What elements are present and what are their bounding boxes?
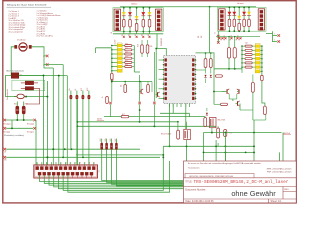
net AUX1A [204, 132, 292, 135]
relay contact S1 [25, 81, 33, 85]
LED array module LD2 [255, 44, 260, 73]
wire aux drop1 [203, 133, 205, 154]
IC left pin stubs [159, 60, 164, 98]
wire between rows [11, 120, 13, 128]
cluster B jumpers right [266, 31, 280, 43]
diode D12 [206, 108, 208, 115]
date row [186, 200, 283, 203]
svg-text:R26: R26 [110, 138, 112, 141]
capacitor C1 [224, 130, 232, 137]
label above ladder2 [245, 43, 248, 45]
resistor RA [227, 48, 230, 59]
IC bottom pin stubs [170, 104, 190, 108]
wire riser x47 [46, 81, 48, 166]
wire R26 down [112, 140, 217, 184]
svg-text:Rmin(ge): Rmin(ge) [4, 132, 11, 134]
svg-text:R18: R18 [138, 44, 140, 47]
transistor T4 [139, 82, 143, 95]
wire right net d [253, 115, 266, 121]
svg-text:WICHTIG: SE000502MOD, PINKOMP,: WICHTIG: SE000502MOD, PINKOMP, BY1646 [189, 176, 234, 178]
wire RA RB bottoms [229, 58, 235, 69]
IC U1 SE000502MOD (gray box) [163, 56, 197, 104]
svg-text:TRX-SE000520M_BR146,2_DC-M_anl: TRX-SE000520M_BR146,2_DC-M_anl_laser [194, 180, 289, 185]
wire riser x43 [43, 75, 45, 166]
svg-text:Document Number:: Document Number: [185, 189, 206, 192]
wire ladder collect [134, 46, 140, 72]
wire rail drop [209, 7, 211, 53]
motor M1 [15, 38, 32, 51]
label Ueberholungskontakt [6, 69, 24, 72]
resistor R19 [146, 40, 152, 57]
wire motor right [32, 47, 54, 68]
wire left vertical [6, 76, 17, 97]
title row [185, 180, 289, 185]
option row 2 [4, 127, 36, 134]
bus segment [76, 154, 163, 156]
wire riser x63 [46, 65, 63, 158]
transistor T10 [225, 89, 229, 94]
bus AUX row2 [77, 125, 216, 127]
wire q2 source [177, 121, 187, 130]
resistor R25 [105, 138, 108, 149]
cluster B bottom labels [224, 35, 240, 38]
wire R25 down [107, 150, 204, 183]
wire aux drop3 [224, 133, 226, 186]
wire bottom bundle 5 [58, 161, 245, 189]
svg-text:Rmax(gn): Rmax(gn) [27, 123, 34, 125]
svg-text:Sheet: 1/1: Sheet: 1/1 [271, 200, 283, 203]
svg-text:IN2: IN2 [201, 36, 203, 39]
wire bottom bundle 2 [44, 152, 279, 183]
IC U1 label [161, 38, 163, 46]
wire lamp to riser [25, 96, 47, 98]
resistor R27 [115, 138, 118, 149]
top rail [120, 6, 256, 8]
wire bottom bundle 6 [63, 146, 164, 190]
jumper JP1 stub [43, 55, 49, 58]
LED array 2 pin stubs [260, 45, 263, 72]
svg-text:R17: R17 [122, 114, 125, 116]
resistor R41 with wires [75, 88, 78, 166]
wire cluster B col drops [229, 37, 235, 48]
title block frame [184, 161, 297, 203]
svg-text:R24: R24 [100, 138, 102, 141]
svg-text:R31: R31 [14, 104, 17, 106]
wire bottom bundle 4 [54, 161, 241, 187]
resistor R31 [16, 102, 20, 121]
wire right net b [229, 99, 240, 110]
note text block [188, 162, 293, 178]
resistor R50 [204, 117, 207, 127]
svg-text:SD: SD [230, 39, 232, 41]
bus net LS1 [4, 148, 141, 154]
svg-text:R25: R25 [105, 138, 107, 141]
resistor R60 [215, 75, 222, 77]
wire ladder2 rail [241, 46, 243, 73]
svg-text:Überholungskontakt: Überholungskontakt [6, 69, 24, 72]
svg-text:R13: R13 [125, 56, 128, 58]
rail y81 [111, 81, 152, 83]
wire bottom bundle 7 [68, 161, 170, 192]
resistor R16 below array [111, 73, 114, 101]
bus net LS2 [4, 156, 161, 162]
mosfet Q2 IRL2703F [161, 129, 190, 139]
net label AUX2 [97, 118, 104, 121]
svg-text:R32: R32 [25, 104, 28, 106]
connector top pin stubs [37, 162, 94, 178]
cluster A bottom bus [113, 32, 163, 34]
svg-text:R10: R10 [125, 44, 128, 46]
resistor R59 [205, 52, 213, 73]
jumper J5 [153, 52, 156, 126]
svg-text:R11: R11 [125, 48, 128, 50]
svg-text:R12: R12 [125, 52, 128, 54]
connector pin numbers [37, 163, 95, 165]
resistor ladder 2 [241, 45, 255, 68]
wire h113 [160, 113, 189, 117]
svg-text:S3: S3 [135, 34, 137, 36]
resistor R52 [217, 126, 220, 138]
transistor T12 [236, 101, 240, 106]
resistor R51 [177, 130, 180, 139]
wire R24 down [102, 146, 187, 180]
diode D11 [210, 75, 212, 77]
document number row with ohne Gewaehr [185, 189, 289, 198]
resistor R58 [204, 53, 207, 70]
svg-text:2: 2 [43, 65, 44, 67]
svg-text:R27: R27 [115, 138, 117, 141]
svg-text:NPN = BC547(B) o.ähnlich: NPN = BC547(B) o.ähnlich [267, 168, 293, 170]
svg-text:PNP = BC557(B) o.ähnlich: PNP = BC557(B) o.ähnlich [267, 172, 292, 174]
svg-text:S1: S1 [122, 34, 124, 36]
svg-text:T1: T1 [215, 32, 217, 34]
svg-text:Drehzahlsteller: Drehzahlsteller [6, 88, 9, 100]
resistor ladder R10-R15 [122, 44, 134, 68]
drawing frame border [3, 1, 296, 203]
wire contact down [26, 88, 40, 104]
label left edge [6, 88, 9, 100]
diode D10 [196, 70, 207, 83]
svg-text:SD: SD [224, 39, 226, 41]
svg-text:Grünes: Grünes [237, 3, 244, 5]
svg-text:ohne Gewähr: ohne Gewähr [231, 189, 276, 198]
svg-text:SD: SD [218, 39, 220, 41]
transistor T5 [152, 82, 160, 98]
wire coil right [19, 75, 44, 77]
resistor R63 [264, 106, 267, 115]
svg-text:Platzhalter(+schaltbar): Platzhalter(+schaltbar) [4, 134, 24, 137]
svg-text:SD: SD [239, 39, 241, 41]
resistor R62 [214, 103, 228, 105]
svg-text:IRL2703: IRL2703 [218, 120, 226, 122]
svg-text:Gelbes: Gelbes [131, 3, 137, 5]
svg-text:R14: R14 [125, 61, 128, 63]
svg-text:SD: SD [221, 39, 223, 41]
svg-text:TITLE:: TITLE: [185, 181, 193, 184]
cluster B second bus [216, 36, 260, 38]
svg-text:S2: S2 [128, 34, 130, 36]
svg-text:IRL2703(F): IRL2703(F) [161, 134, 171, 136]
svg-text:20 = Lautsprecher: 20 = Lautsprecher [9, 31, 24, 34]
resistor R21 [147, 82, 150, 93]
cluster B jumper row [218, 37, 242, 40]
labels above R31 R32 [14, 104, 28, 106]
option row 1 [4, 119, 36, 126]
LED cluster module A (Gelbes) [113, 3, 163, 32]
wire riser x53 [52, 68, 54, 166]
wire cluster A to IC [157, 34, 166, 56]
resistor R22 [102, 96, 108, 103]
svg-text:S5: S5 [148, 34, 150, 36]
LED array module LD1 [117, 43, 122, 72]
wire right net c [240, 92, 253, 120]
pin assignment legend text [7, 4, 61, 38]
jumper J3 [109, 102, 112, 117]
resistor R20 [121, 82, 127, 93]
bus AUX row1 [77, 121, 177, 123]
svg-text:5xLED: 5xLED [115, 39, 117, 45]
svg-text:2k4: 2k4 [245, 43, 248, 45]
transistor T11 [237, 89, 239, 94]
wire riser x36 [35, 120, 37, 166]
wire bottom bundle 1 [40, 162, 276, 182]
wire aux drop2 [211, 128, 213, 133]
wire IC drop3 [185, 104, 187, 130]
svg-text:LS: LS [4, 152, 6, 154]
svg-text:IN1: IN1 [198, 36, 200, 39]
svg-text:Rmax(ge): Rmax(ge) [4, 123, 11, 125]
wire cluster A drop [155, 48, 157, 98]
resistor R43 with wires [86, 88, 90, 166]
svg-text:10k: 10k [121, 84, 123, 87]
svg-text:Es muss ein Decoder mit verstä: Es muss ein Decoder mit verstärkten Ausg… [188, 162, 262, 165]
wire right net a [213, 69, 215, 105]
wire IC drop2 [172, 104, 174, 114]
resistor R17 horizontal [104, 114, 205, 118]
label Platzhalter [4, 134, 24, 137]
svg-text:SD: SD [236, 39, 238, 41]
svg-text:23 = VCC säh.(BTL): 23 = VCC säh.(BTL) [37, 36, 54, 38]
wire h68 [214, 68, 242, 70]
svg-text:R19: R19 [150, 46, 153, 48]
lamp LA1 [14, 94, 26, 99]
resistor R40 with wires [69, 88, 72, 149]
resistor RB [233, 48, 236, 59]
resistor R32 [22, 102, 26, 121]
svg-text:C1: C1 [230, 133, 232, 135]
svg-text:R15: R15 [125, 65, 128, 67]
svg-text:Date: 24.06.2011 11:04:36: Date: 24.06.2011 11:04:36 [186, 200, 215, 203]
relay coil K1 [11, 73, 22, 79]
wire v254 [253, 120, 255, 161]
svg-text:S4: S4 [142, 34, 144, 36]
wire riser x77 buses [76, 99, 78, 166]
LED cluster module B (Gruenes) [218, 3, 267, 32]
cluster A column labels [111, 32, 150, 38]
wire riser x58 [58, 75, 60, 166]
resistor R61 [252, 75, 255, 93]
wire riser x67 [66, 76, 68, 166]
wire IC topright [196, 53, 215, 69]
contact highlight box [12, 80, 45, 91]
svg-text:DC-Motor: DC-Motor [17, 38, 26, 41]
svg-text:Transistoren:: Transistoren: [188, 166, 200, 169]
relay contact S2 [25, 87, 33, 90]
svg-text:LS+: LS+ [69, 88, 71, 91]
resistor R42 with wires [80, 88, 84, 158]
label LED5x [115, 39, 117, 45]
wire fet drop [187, 140, 219, 147]
wire h152 [204, 151, 255, 153]
svg-text:1: 1 [43, 56, 44, 58]
net stub circle [111, 79, 113, 81]
resistor R24 [100, 138, 103, 149]
wire t10 t11 [213, 92, 237, 100]
connector X1 25-pin Sub-D [34, 165, 101, 178]
wire array bus [96, 48, 112, 73]
resistor R26 [110, 138, 113, 149]
svg-text:LS: LS [111, 32, 113, 34]
IC top pin labels [198, 36, 203, 39]
svg-text:SE000502: SE000502 [161, 38, 163, 46]
jumper JP2 stub [43, 63, 49, 66]
wire IC drop1 [169, 104, 171, 148]
jumper J4 [138, 75, 141, 122]
svg-text:Belegung der 25-pol. Sub-D Sch: Belegung der 25-pol. Sub-D Schnittstelle [7, 4, 47, 7]
wire bottom bundle 3 [49, 133, 283, 186]
cluster B jumpers left [215, 31, 220, 44]
wire fet rail [163, 145, 254, 147]
wire motor left to lower bus [11, 47, 67, 76]
wire array2 right rail [261, 46, 263, 75]
svg-text:REV:: REV: [284, 189, 289, 191]
mosfet Q1 IRL2703 [210, 118, 226, 128]
svg-text:Rmin(gn): Rmin(gn) [27, 132, 34, 134]
resistor R18 [138, 40, 144, 57]
wire R27 down [116, 150, 225, 186]
resistor R64 [261, 75, 265, 106]
LED array pin stubs [111, 45, 117, 72]
contact leads [21, 83, 40, 88]
